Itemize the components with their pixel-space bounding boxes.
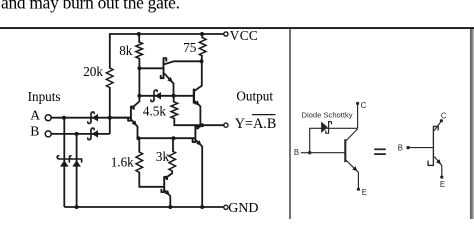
wire Q4 emitter — [196, 140, 202, 207]
transistor Q2 base bar — [161, 58, 167, 78]
wire Q1 emitter — [132, 120, 138, 138]
wire Q2 emitter — [164, 73, 173, 96]
node K base node — [137, 94, 141, 98]
resistor R 1.6k body — [136, 152, 143, 172]
node A clamp tap — [62, 116, 66, 120]
node Q1 emitter / 1.6k — [136, 136, 140, 140]
svg-text:and may burn out the gate.: and may burn out the gate. — [1, 0, 180, 12]
overline on A.B — [252, 114, 276, 116]
right scan edge band — [470, 29, 473, 219]
wire VCC rail — [110, 33, 224, 35]
wire 4.5k top lead — [173, 96, 175, 103]
svg-text:A: A — [30, 107, 40, 122]
wire Q1 base — [110, 117, 130, 119]
wire Q3 collector riser — [201, 61, 203, 86]
wire clamp A vertical — [63, 118, 65, 207]
equiv left: base junction node — [308, 151, 311, 154]
GND terminal circle — [224, 205, 228, 209]
equiv left: schottky diode D6 — [321, 122, 328, 134]
svg-text:B: B — [398, 144, 403, 153]
svg-text:20k: 20k — [83, 64, 103, 79]
svg-text:Inputs: Inputs — [28, 89, 61, 104]
arrow Q5 emitter — [164, 190, 169, 196]
output terminal circle — [224, 123, 228, 127]
wire input B — [51, 133, 109, 135]
equiv right: emitter arrow — [436, 159, 441, 164]
svg-text:B: B — [30, 124, 39, 139]
node B clamp tap — [75, 132, 79, 136]
node VCC rail 75 junction — [200, 32, 204, 36]
resistor R 8k body — [136, 42, 143, 59]
node output junction — [200, 123, 204, 127]
diode D4 clamp input B — [69, 156, 81, 159]
node GND Q5 emitter — [168, 205, 172, 209]
node Q2 base tap — [137, 66, 141, 70]
svg-text:75: 75 — [183, 40, 197, 55]
svg-text:E: E — [362, 188, 367, 197]
wire Q5 emitter — [165, 190, 170, 207]
equiv left: base wire — [301, 152, 345, 154]
resistor R 75 body — [199, 38, 206, 56]
wire 8k lower lead to base node — [138, 58, 140, 96]
wire output — [202, 124, 224, 126]
svg-text:1.6k: 1.6k — [111, 155, 134, 170]
resistor R 4.5k body — [171, 102, 178, 119]
equiv right: collector diag — [434, 121, 441, 131]
panel separator line — [289, 28, 291, 219]
equiv left: emitter diag — [346, 160, 358, 189]
node GND clamp B — [75, 205, 79, 209]
wire 20k top lead — [109, 33, 111, 68]
svg-text:Diode Schottky: Diode Schottky — [302, 111, 353, 120]
diode D5 schottky base-collector — [154, 90, 157, 100]
wire 1.6k top lead — [138, 138, 140, 152]
diode D2 schottky input B — [91, 128, 94, 138]
wire 75 top lead — [201, 34, 203, 38]
wire 1.6k bottom lead — [139, 172, 163, 187]
svg-text:8k: 8k — [119, 43, 133, 58]
equiv left: C terminal — [356, 102, 359, 105]
node GND Q4 emitter — [200, 205, 204, 209]
wire 3k top lead — [172, 138, 174, 151]
equiv left: transistor base bar — [344, 139, 346, 162]
arrow Q1 emitter — [132, 120, 137, 126]
wire 3k bottom lead — [165, 170, 172, 178]
equiv right: E terminal — [440, 176, 443, 179]
wire Q4 collector diag — [196, 125, 202, 128]
wire D5 line — [139, 95, 193, 97]
transistor Q5 squaring base bar — [161, 177, 167, 192]
equals sign — [374, 148, 386, 150]
node VCC rail 8k junction — [137, 32, 141, 36]
wire 8k top lead — [138, 34, 140, 43]
wire 20k bottom lead — [109, 87, 111, 118]
wire GND rail — [64, 206, 224, 208]
svg-text:C: C — [441, 111, 447, 120]
svg-text:4.5k: 4.5k — [143, 103, 166, 118]
svg-text:Output: Output — [236, 89, 273, 104]
equiv left: base-collector wire — [310, 128, 358, 152]
wire Q2 collector — [164, 61, 201, 64]
transistor Q1 base bar — [128, 107, 134, 121]
equiv left: collector diag — [346, 129, 357, 141]
equiv left: emitter arrow — [352, 166, 357, 171]
arrow Q3 emitter — [194, 100, 200, 105]
diode D1 schottky input A — [91, 112, 94, 122]
wire Q4 base line — [138, 137, 194, 139]
wire 4.5k bottom lead — [174, 118, 202, 125]
arrow Q2 emitter — [167, 77, 172, 83]
node Q3 base / 4.5k top — [172, 94, 176, 98]
equiv right: schottky base bar — [428, 126, 438, 165]
svg-text:GND: GND — [228, 201, 258, 216]
equiv left: E terminal — [357, 188, 360, 191]
wire Q3 collector diag — [195, 85, 203, 90]
wire Q3 emitter — [195, 101, 201, 125]
VCC terminal circle — [224, 32, 228, 36]
transistor Q3 base bar (plain) — [193, 89, 195, 104]
wire 75 bottom lead — [201, 55, 203, 61]
svg-text:C: C — [361, 101, 367, 110]
figure top border — [0, 27, 474, 29]
resistor R 3k body — [169, 151, 176, 171]
wire Q1 collector — [132, 96, 140, 109]
input A terminal circle — [45, 115, 51, 121]
svg-text:B: B — [294, 148, 299, 157]
svg-text:VCC: VCC — [230, 28, 258, 43]
equiv right: base wire — [408, 147, 433, 149]
svg-text:3k: 3k — [156, 149, 170, 164]
svg-text:E: E — [440, 180, 445, 189]
resistor R 20k body — [106, 68, 113, 88]
wire B riser to node A — [109, 117, 111, 134]
node 75 / Q2 collector — [200, 59, 204, 63]
diode D3 clamp input A — [57, 156, 69, 159]
wire input A — [51, 117, 130, 119]
input B terminal circle — [45, 131, 51, 137]
transistor Q4 output pulldown base bar — [193, 126, 199, 142]
wire clamp B vertical — [76, 134, 78, 207]
wire Q2 base — [139, 67, 162, 69]
wire Q5 collector diag — [165, 174, 172, 179]
equiv right: B terminal node — [406, 146, 409, 149]
equiv left: collector wire — [357, 104, 359, 129]
arrow Q4 emitter — [196, 140, 201, 145]
node A main junction — [108, 116, 112, 120]
svg-text:Y=A.B: Y=A.B — [235, 116, 277, 132]
equiv right: emitter diag — [434, 157, 442, 178]
node 3k top — [171, 136, 175, 140]
